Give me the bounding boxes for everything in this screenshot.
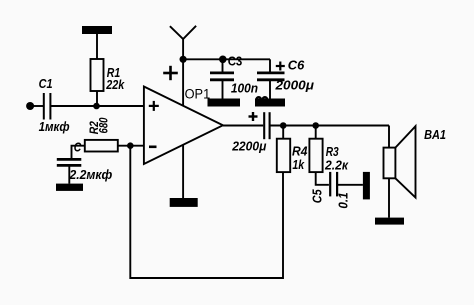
wire C1 to op-amp + input	[50, 105, 143, 107]
node junction R2 / feedback / inverting input	[127, 142, 134, 149]
wire input to C1	[30, 105, 43, 107]
svg-text:2.2к: 2.2к	[324, 158, 349, 173]
wire C4 to speaker	[270, 125, 389, 127]
capacitor C3	[210, 59, 234, 98]
ground bar under C6	[255, 99, 285, 107]
svg-text:BA1: BA1	[424, 127, 446, 142]
speaker BA1	[384, 126, 416, 197]
svg-text:C6: C6	[288, 57, 305, 72]
wire supply rail	[183, 58, 270, 60]
wire down to speaker	[388, 126, 390, 148]
ground bar under speaker	[375, 218, 404, 225]
op-amp OP1	[144, 87, 223, 165]
op-amp ground pin wire	[182, 145, 184, 198]
wire R2 left hook to C2	[72, 146, 85, 160]
node R3 junction	[312, 122, 319, 129]
svg-text:C1: C1	[39, 76, 53, 91]
resistor R3	[309, 126, 329, 185]
resistor R4	[277, 126, 290, 173]
ground bar under op-amp	[170, 198, 198, 207]
svg-text:1k: 1k	[292, 157, 304, 172]
capacitor C2 2.2мкф	[57, 159, 82, 165]
node junction C1/R1	[93, 103, 100, 110]
node supply junction	[180, 56, 187, 63]
wire C2 to ground	[68, 165, 70, 183]
wire feedback loop	[130, 146, 283, 278]
capacitor C1	[44, 93, 51, 120]
wire output to C4	[223, 125, 263, 127]
capacitor C6	[257, 59, 285, 98]
node C3 junction	[219, 56, 227, 64]
svg-text:2200μ: 2200μ	[231, 138, 266, 153]
svg-text:680: 680	[97, 117, 111, 133]
svg-text:0.1: 0.1	[336, 192, 350, 208]
resistor R1	[91, 34, 104, 106]
supply plus symbol	[163, 66, 178, 80]
power rail bar above R1	[82, 26, 112, 34]
svg-text:C5: C5	[311, 188, 325, 203]
input terminal node	[26, 102, 34, 110]
C4 plus symbol	[249, 112, 258, 121]
svg-text:1мкф: 1мкф	[39, 119, 70, 134]
wire speaker to ground	[388, 178, 390, 217]
svg-text:2000μ: 2000μ	[274, 78, 314, 93]
resistor R2	[85, 140, 144, 152]
node R4 junction	[280, 122, 287, 129]
C6 plus symbol	[276, 62, 285, 71]
ground bar under C3	[208, 99, 241, 107]
svg-text:100n: 100n	[231, 81, 258, 96]
artifact rings on C6 bar	[256, 97, 267, 102]
ground bar under C2	[56, 184, 83, 191]
wire supply drop into op-amp	[182, 59, 184, 106]
svg-text:C3: C3	[228, 55, 243, 69]
svg-text:2.2мкф: 2.2мкф	[69, 167, 113, 182]
svg-text:OP1: OP1	[185, 87, 211, 102]
capacitor C5	[330, 172, 337, 197]
supply antenna symbol	[170, 26, 196, 60]
capacitor C4 2200μ	[264, 112, 269, 139]
svg-text:22k: 22k	[105, 77, 124, 92]
svg-text:C: C	[74, 140, 82, 155]
wire C5 to ground	[337, 184, 363, 186]
ground bar right of C5	[363, 172, 370, 200]
